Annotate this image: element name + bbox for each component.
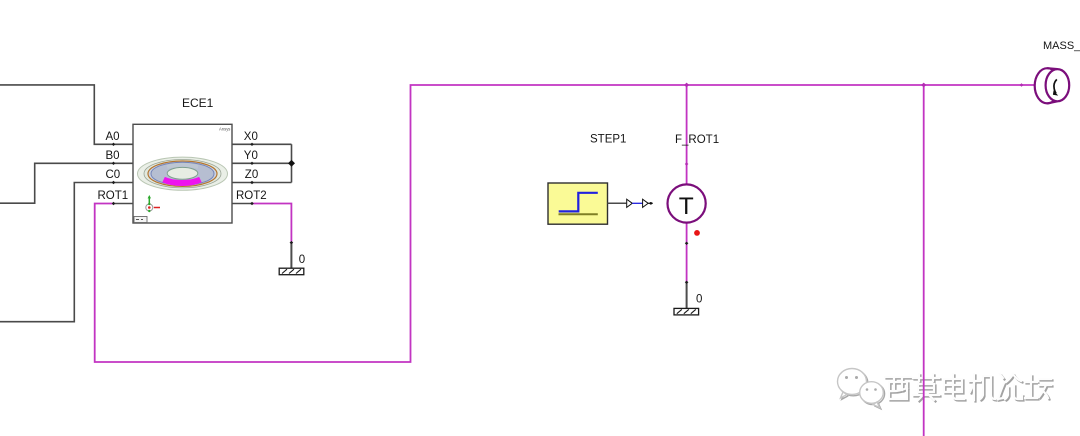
- svg-text:0: 0: [299, 254, 305, 266]
- svg-text:X0: X0: [244, 131, 258, 143]
- svg-text:C0: C0: [106, 169, 121, 181]
- svg-text:Y0: Y0: [244, 150, 258, 162]
- svg-text:A0: A0: [106, 131, 120, 143]
- svg-text:ROT2: ROT2: [236, 190, 267, 202]
- svg-text:Ansys: Ansys: [219, 127, 230, 132]
- svg-text:B0: B0: [106, 150, 120, 162]
- svg-text:0: 0: [696, 293, 702, 305]
- svg-text:T: T: [679, 193, 694, 220]
- svg-text:ROT1: ROT1: [98, 190, 129, 202]
- svg-text:MASS_ROT1: MASS_ROT1: [1043, 40, 1080, 52]
- svg-text:STEP1: STEP1: [590, 134, 626, 146]
- svg-text:F_ROT1: F_ROT1: [675, 134, 719, 146]
- svg-text:ECE1: ECE1: [182, 96, 214, 110]
- svg-text:Z0: Z0: [245, 169, 258, 181]
